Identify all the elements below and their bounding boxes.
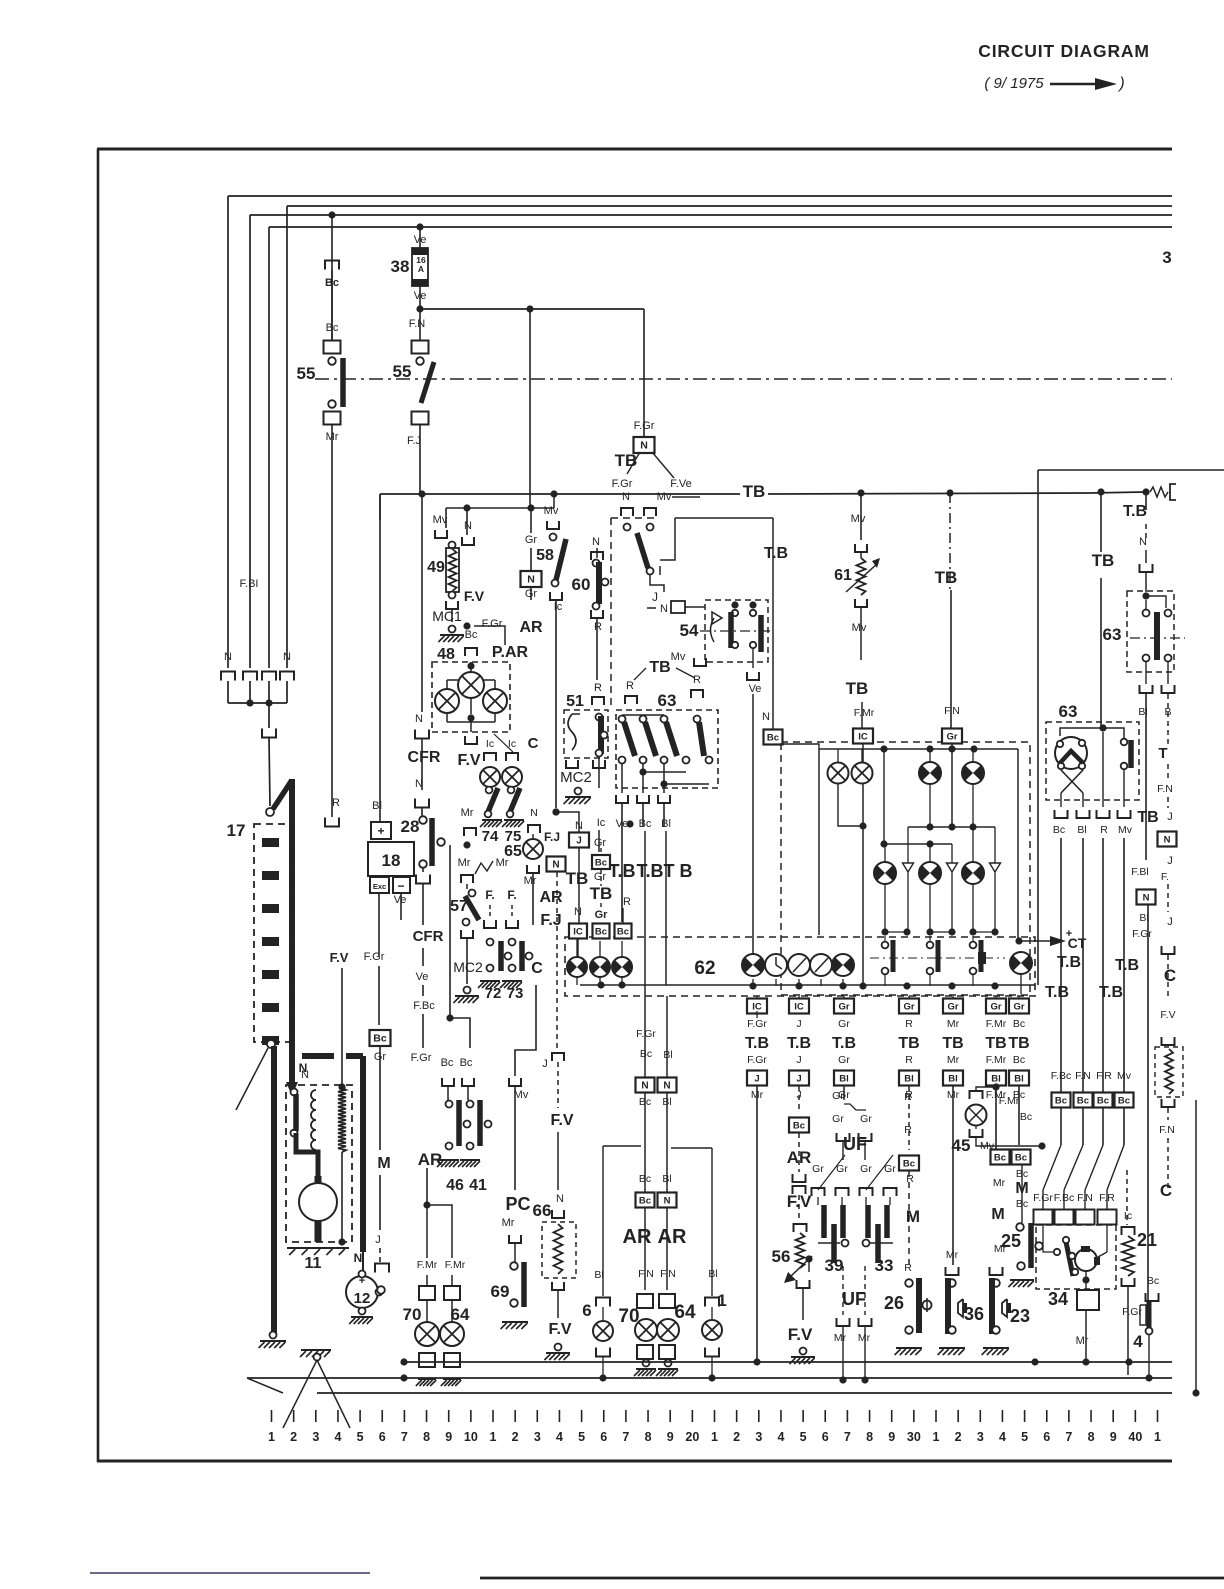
svg-text:48: 48 (437, 646, 455, 663)
svg-text:Bc: Bc (1147, 1275, 1159, 1287)
svg-text:Bl: Bl (708, 1268, 717, 1280)
svg-text:C: C (1160, 1181, 1172, 1200)
svg-text:N: N (556, 1193, 564, 1205)
svg-text:Mr: Mr (947, 1054, 960, 1066)
svg-text:6: 6 (822, 1430, 829, 1444)
svg-text:Bl: Bl (661, 818, 671, 830)
svg-text:+: + (377, 824, 384, 838)
svg-text:6: 6 (1043, 1430, 1050, 1444)
svg-text:J: J (375, 1234, 381, 1246)
svg-text:F.J: F.J (407, 435, 421, 447)
svg-text:AR: AR (418, 1150, 443, 1169)
svg-text:F.N: F.N (944, 705, 960, 717)
svg-text:CFR: CFR (413, 928, 444, 945)
svg-text:J: J (576, 836, 582, 847)
svg-text:3: 3 (1162, 248, 1171, 267)
svg-text:5: 5 (357, 1430, 364, 1444)
svg-text:11: 11 (305, 1255, 322, 1272)
svg-text:Bc: Bc (639, 1173, 651, 1185)
svg-text:R: R (1100, 824, 1108, 836)
svg-text:J: J (796, 1054, 801, 1066)
svg-text:10: 10 (464, 1430, 478, 1444)
svg-text:F.Gr: F.Gr (634, 420, 655, 432)
svg-text:70: 70 (403, 1305, 422, 1324)
svg-text:F.N: F.N (1075, 1070, 1091, 1082)
svg-text:7: 7 (622, 1430, 629, 1444)
svg-text:7: 7 (1065, 1430, 1072, 1444)
svg-text:2: 2 (512, 1430, 519, 1444)
svg-text:Mv: Mv (851, 513, 866, 525)
svg-text:TB: TB (590, 884, 613, 903)
svg-text:7: 7 (844, 1430, 851, 1444)
svg-text:F.Gr: F.Gr (411, 1052, 432, 1064)
svg-text:N: N (464, 520, 472, 532)
svg-text:45: 45 (952, 1136, 971, 1155)
svg-text:J: J (542, 1058, 548, 1070)
svg-text:6: 6 (582, 1301, 591, 1320)
svg-text:F.Gr: F.Gr (747, 1018, 767, 1030)
svg-text:MC1: MC1 (432, 608, 462, 624)
svg-text:Bl: Bl (594, 1269, 603, 1281)
svg-text:N: N (552, 860, 559, 871)
svg-text:AR: AR (658, 1226, 687, 1248)
svg-text:T.B: T.B (1123, 503, 1147, 520)
svg-text:2: 2 (955, 1430, 962, 1444)
svg-text:Ic: Ic (554, 601, 563, 613)
svg-text:Bc: Bc (617, 927, 629, 938)
svg-text:CT: CT (1068, 935, 1087, 951)
svg-text:C: C (1164, 966, 1176, 985)
svg-text:69: 69 (491, 1282, 510, 1301)
svg-text:Bc: Bc (1097, 1096, 1109, 1107)
svg-text:Bc: Bc (1013, 1054, 1025, 1066)
svg-text:Gr: Gr (838, 1054, 850, 1066)
svg-text:Gr: Gr (860, 1113, 872, 1125)
svg-text:R: R (904, 1124, 912, 1136)
svg-text:28: 28 (401, 817, 420, 836)
svg-text:F.Mr: F.Mr (854, 707, 875, 719)
svg-text:TB: TB (566, 869, 589, 888)
svg-text:54: 54 (680, 621, 699, 640)
svg-text:F.R: F.R (1096, 1070, 1112, 1082)
svg-text:Gr: Gr (990, 1002, 1001, 1013)
svg-text:Mv: Mv (514, 1089, 529, 1101)
svg-text:R: R (594, 682, 602, 694)
svg-text:F.V: F.V (464, 588, 485, 604)
svg-text:Bc: Bc (994, 1153, 1006, 1164)
svg-text:63: 63 (1059, 702, 1078, 721)
svg-text:J: J (652, 590, 658, 604)
svg-text:F.N: F.N (1077, 1192, 1093, 1204)
svg-text:Ic: Ic (486, 738, 494, 750)
svg-text:Bl: Bl (904, 1074, 914, 1085)
svg-text:N: N (574, 906, 582, 918)
svg-text:55: 55 (393, 362, 412, 381)
svg-text:UF: UF (843, 1134, 867, 1154)
svg-text:Gr: Gr (594, 871, 607, 883)
svg-text:Mr: Mr (524, 875, 537, 887)
svg-text:F.Mr: F.Mr (417, 1259, 438, 1271)
svg-text:Bc: Bc (595, 927, 607, 938)
svg-text:73: 73 (507, 985, 524, 1002)
svg-text:J: J (1167, 916, 1173, 928)
svg-text:IC: IC (752, 1002, 762, 1013)
svg-text:R: R (904, 1091, 912, 1103)
svg-text:4: 4 (1133, 1332, 1143, 1351)
svg-text:Gr: Gr (525, 534, 538, 546)
svg-text:Bc: Bc (640, 1048, 652, 1060)
svg-text:R: R (332, 797, 340, 809)
svg-text:61: 61 (834, 567, 852, 584)
svg-text:CIRCUIT DIAGRAM: CIRCUIT DIAGRAM (978, 41, 1149, 61)
svg-text:58: 58 (536, 547, 554, 564)
svg-text:Bc: Bc (1118, 1096, 1130, 1107)
svg-text:9: 9 (1110, 1430, 1117, 1444)
svg-text:MC2: MC2 (453, 959, 483, 975)
svg-text:N: N (530, 807, 538, 819)
svg-text:IC: IC (573, 927, 583, 938)
svg-text:17: 17 (227, 821, 246, 840)
svg-text:F.Bc: F.Bc (1051, 1070, 1071, 1082)
svg-text:8: 8 (645, 1430, 652, 1444)
svg-text:36: 36 (964, 1304, 984, 1324)
svg-text:F.: F. (507, 888, 516, 902)
svg-text:Bc: Bc (1053, 824, 1065, 836)
svg-text:30: 30 (907, 1430, 921, 1444)
svg-text:F.N: F.N (660, 1268, 676, 1280)
svg-text:F.V: F.V (1160, 1009, 1175, 1021)
svg-text:64: 64 (674, 1302, 696, 1323)
svg-text:57: 57 (450, 898, 468, 915)
svg-text:UF: UF (842, 1289, 866, 1309)
svg-text:F.Ve: F.Ve (670, 478, 691, 490)
svg-text:Gr: Gr (860, 1163, 872, 1175)
svg-text:9: 9 (445, 1430, 452, 1444)
svg-text:Bc: Bc (903, 1159, 915, 1170)
svg-text:F.Gr: F.Gr (364, 951, 385, 963)
svg-text:N: N (641, 1081, 648, 1092)
svg-text:Ic: Ic (1124, 1210, 1132, 1222)
svg-text:8: 8 (1088, 1430, 1095, 1444)
svg-text:5: 5 (578, 1430, 585, 1444)
svg-text:F.Mr: F.Mr (445, 1259, 466, 1271)
svg-text:Bl: Bl (948, 1074, 958, 1085)
svg-text:Mr: Mr (993, 1177, 1006, 1189)
svg-text:Mr: Mr (458, 857, 471, 869)
svg-text:Mr: Mr (946, 1249, 959, 1261)
svg-text:F.Mr: F.Mr (999, 1095, 1020, 1107)
svg-text:N: N (762, 711, 770, 723)
svg-text:39: 39 (825, 1256, 844, 1275)
svg-text:Bl: Bl (839, 1074, 849, 1085)
svg-text:1: 1 (490, 1430, 497, 1444)
svg-text:M: M (377, 1155, 390, 1172)
svg-text:): ) (1117, 75, 1124, 92)
svg-text:R: R (905, 1054, 913, 1066)
svg-text:40: 40 (1128, 1430, 1142, 1444)
svg-text:Bc: Bc (373, 1033, 387, 1045)
svg-text:Gr: Gr (838, 1002, 849, 1013)
svg-text:TB: TB (615, 451, 638, 470)
svg-text:R: R (594, 621, 602, 633)
svg-text:Bl: Bl (663, 1049, 672, 1061)
svg-text:N: N (640, 440, 648, 452)
svg-text:TB: TB (846, 679, 869, 698)
svg-text:J: J (1167, 855, 1173, 867)
svg-text:Gr: Gr (838, 1018, 850, 1030)
svg-text:F.Gr: F.Gr (747, 1054, 767, 1066)
svg-text:CFR: CFR (408, 749, 441, 766)
svg-text:A: A (418, 264, 424, 274)
svg-text:1: 1 (268, 1430, 275, 1444)
svg-text:M: M (991, 1206, 1004, 1223)
svg-text:12: 12 (354, 1290, 371, 1307)
svg-text:T.B: T.B (1099, 984, 1123, 1001)
svg-text:F.Gr: F.Gr (636, 1028, 656, 1040)
svg-text:63: 63 (658, 691, 677, 710)
svg-text:N: N (663, 1081, 670, 1092)
svg-text:Gr: Gr (832, 1113, 844, 1125)
svg-text:( 9/ 1975: ( 9/ 1975 (984, 75, 1044, 92)
svg-text:Bl: Bl (1014, 1074, 1024, 1085)
svg-text:TB: TB (1137, 809, 1158, 826)
svg-text:20: 20 (685, 1430, 699, 1444)
svg-text:1: 1 (1154, 1430, 1161, 1444)
svg-text:F.Gr: F.Gr (482, 618, 503, 630)
svg-text:TB: TB (898, 1035, 919, 1052)
svg-text:23: 23 (1010, 1306, 1030, 1326)
svg-text:Bl: Bl (991, 1074, 1001, 1085)
svg-text:Mr: Mr (947, 1018, 960, 1030)
svg-text:Ic: Ic (597, 817, 606, 829)
svg-text:F.Bc: F.Bc (413, 1000, 435, 1012)
svg-text:R: R (904, 1262, 912, 1274)
svg-text:N: N (354, 1251, 363, 1265)
svg-text:46: 46 (446, 1177, 464, 1194)
svg-text:R: R (623, 896, 631, 908)
svg-text:C: C (528, 735, 539, 752)
svg-text:−: − (397, 879, 404, 893)
svg-text:4: 4 (777, 1430, 784, 1444)
svg-text:Bc: Bc (767, 733, 779, 744)
svg-text:TB: TB (942, 1035, 963, 1052)
svg-text:F.Gr: F.Gr (1132, 928, 1152, 940)
svg-text:Bc: Bc (595, 858, 607, 869)
svg-text:Mr: Mr (834, 1332, 847, 1344)
svg-text:4: 4 (334, 1430, 341, 1444)
svg-text:N: N (415, 778, 423, 790)
svg-text:TB: TB (649, 659, 670, 676)
svg-text:AR: AR (519, 619, 543, 636)
svg-text:C: C (531, 960, 543, 977)
svg-text:Bc: Bc (1020, 1111, 1032, 1123)
svg-text:6: 6 (379, 1430, 386, 1444)
svg-text:6: 6 (600, 1430, 607, 1444)
svg-text:TB: TB (1008, 1035, 1029, 1052)
svg-text:F.V: F.V (550, 1112, 573, 1129)
svg-text:74: 74 (482, 828, 499, 845)
svg-text:J: J (796, 1018, 801, 1030)
svg-text:F.V: F.V (548, 1321, 571, 1338)
svg-text:F.V: F.V (330, 950, 349, 965)
svg-text:T B: T B (664, 861, 693, 881)
svg-text:8: 8 (423, 1430, 430, 1444)
svg-text:F.Gr: F.Gr (612, 478, 633, 490)
svg-text:18: 18 (382, 851, 401, 870)
svg-text:T.B: T.B (832, 1035, 856, 1052)
svg-text:PC: PC (505, 1194, 530, 1214)
svg-text:41: 41 (469, 1177, 487, 1194)
svg-text:Bc: Bc (460, 1057, 473, 1069)
svg-text:60: 60 (572, 575, 591, 594)
svg-text:25: 25 (1001, 1231, 1021, 1251)
svg-text:5: 5 (800, 1430, 807, 1444)
svg-text:J: J (754, 1074, 759, 1085)
svg-text:F.Mr: F.Mr (986, 1018, 1007, 1030)
svg-text:R: R (905, 1018, 913, 1030)
svg-text:Bl: Bl (662, 1173, 671, 1185)
svg-text:AR: AR (623, 1226, 652, 1248)
svg-text:Gr: Gr (946, 732, 957, 743)
svg-text:21: 21 (1137, 1230, 1157, 1250)
svg-text:Ve: Ve (749, 683, 762, 695)
svg-text:Mr: Mr (461, 807, 474, 819)
svg-text:MC2: MC2 (560, 769, 592, 786)
svg-text:F.Bc: F.Bc (1054, 1192, 1074, 1204)
svg-text:Mv: Mv (544, 505, 559, 517)
svg-text:IC: IC (858, 732, 868, 743)
svg-text:Bc: Bc (1055, 1096, 1067, 1107)
svg-text:F.J: F.J (544, 830, 560, 844)
svg-text:T.B: T.B (745, 1035, 769, 1052)
svg-text:R: R (906, 1173, 914, 1185)
svg-text:1: 1 (717, 1291, 726, 1310)
svg-text:F.Gr: F.Gr (1033, 1192, 1053, 1204)
svg-text:26: 26 (884, 1293, 904, 1313)
svg-text:Bl: Bl (1077, 824, 1086, 836)
svg-text:66: 66 (533, 1201, 552, 1220)
svg-text:F.BI: F.BI (240, 578, 259, 590)
svg-text:Bc: Bc (1077, 1096, 1089, 1107)
svg-text:N: N (415, 713, 423, 725)
svg-text:T.B: T.B (1045, 984, 1069, 1001)
svg-text:T.B: T.B (764, 545, 788, 562)
svg-text:Gr: Gr (832, 1090, 844, 1102)
svg-text:Gr: Gr (594, 837, 607, 849)
svg-text:55: 55 (297, 364, 316, 383)
svg-text:Bc: Bc (639, 1196, 651, 1207)
svg-text:TB: TB (743, 482, 766, 501)
svg-text:F.V: F.V (788, 1325, 813, 1344)
svg-text:P.AR: P.AR (492, 644, 529, 661)
svg-text:TB: TB (935, 568, 958, 587)
svg-text:N: N (592, 536, 600, 548)
svg-text:34: 34 (1048, 1289, 1068, 1309)
svg-text:N: N (527, 574, 535, 586)
svg-text:3: 3 (977, 1430, 984, 1444)
svg-text:N: N (283, 651, 291, 663)
svg-text:F.N: F.N (409, 318, 426, 330)
svg-text:3: 3 (534, 1430, 541, 1444)
svg-text:Mv: Mv (1117, 1070, 1132, 1082)
svg-text:N: N (660, 603, 668, 615)
svg-text:N: N (224, 651, 232, 663)
svg-text:33: 33 (875, 1256, 894, 1275)
svg-text:2: 2 (290, 1430, 297, 1444)
svg-text:Bc: Bc (1013, 1018, 1025, 1030)
svg-text:Mv: Mv (1118, 824, 1133, 836)
svg-text:T.B: T.B (637, 861, 664, 881)
svg-text:62: 62 (694, 958, 715, 979)
svg-text:Mr: Mr (1076, 1335, 1089, 1347)
svg-text:4: 4 (556, 1430, 563, 1444)
svg-text:Ve: Ve (416, 971, 429, 983)
svg-text:Bc: Bc (639, 818, 652, 830)
svg-text:Gr: Gr (903, 1002, 914, 1013)
svg-text:F.: F. (1161, 871, 1169, 883)
svg-text:7: 7 (401, 1430, 408, 1444)
svg-text:9: 9 (667, 1430, 674, 1444)
svg-text:72: 72 (485, 985, 502, 1002)
svg-text:R: R (626, 680, 634, 692)
svg-text:N: N (664, 1196, 671, 1207)
svg-text:R: R (693, 674, 701, 686)
svg-text:51: 51 (566, 693, 584, 710)
svg-text:Bc: Bc (441, 1057, 454, 1069)
svg-text:IC: IC (794, 1002, 804, 1013)
svg-text:Bc: Bc (1015, 1153, 1027, 1164)
svg-text:8: 8 (866, 1430, 873, 1444)
svg-text:T.B: T.B (1115, 957, 1139, 974)
svg-text:F.Mr: F.Mr (986, 1054, 1007, 1066)
svg-text:TB: TB (985, 1035, 1006, 1052)
svg-text:Mv: Mv (852, 622, 867, 634)
svg-text:J: J (796, 1074, 801, 1085)
svg-text:AR: AR (539, 889, 563, 906)
svg-text:Mv: Mv (433, 514, 448, 526)
svg-text:TB: TB (1092, 551, 1115, 570)
svg-text:3: 3 (755, 1430, 762, 1444)
svg-text:Ve: Ve (394, 894, 407, 906)
svg-text:F.: F. (485, 888, 494, 902)
svg-text:Mr: Mr (502, 1217, 515, 1229)
svg-text:Gr: Gr (947, 1002, 958, 1013)
svg-text:63: 63 (1103, 625, 1122, 644)
svg-text:N: N (1164, 835, 1171, 846)
svg-text:F.J: F.J (540, 912, 561, 929)
svg-text:J: J (1167, 811, 1173, 823)
svg-text:Gr: Gr (1013, 1002, 1024, 1013)
svg-text:T.B: T.B (787, 1035, 811, 1052)
svg-text:4: 4 (999, 1430, 1006, 1444)
svg-text:1: 1 (711, 1430, 718, 1444)
svg-text:F.R: F.R (1099, 1192, 1115, 1204)
svg-text:Mr: Mr (858, 1332, 871, 1344)
svg-text:Mv: Mv (657, 491, 672, 503)
svg-text:Mr: Mr (496, 857, 509, 869)
svg-text:M: M (906, 1207, 920, 1226)
svg-text:T.B: T.B (1057, 954, 1081, 971)
svg-text:49: 49 (427, 559, 445, 576)
svg-text:N: N (575, 820, 583, 832)
svg-text:T: T (1158, 745, 1167, 762)
svg-text:Bc: Bc (793, 1121, 805, 1132)
svg-text:Gr: Gr (595, 909, 609, 921)
svg-text:5: 5 (1021, 1430, 1028, 1444)
svg-text:9: 9 (888, 1430, 895, 1444)
svg-text:F.N: F.N (1157, 783, 1173, 795)
svg-text:F.N: F.N (1159, 1124, 1175, 1136)
